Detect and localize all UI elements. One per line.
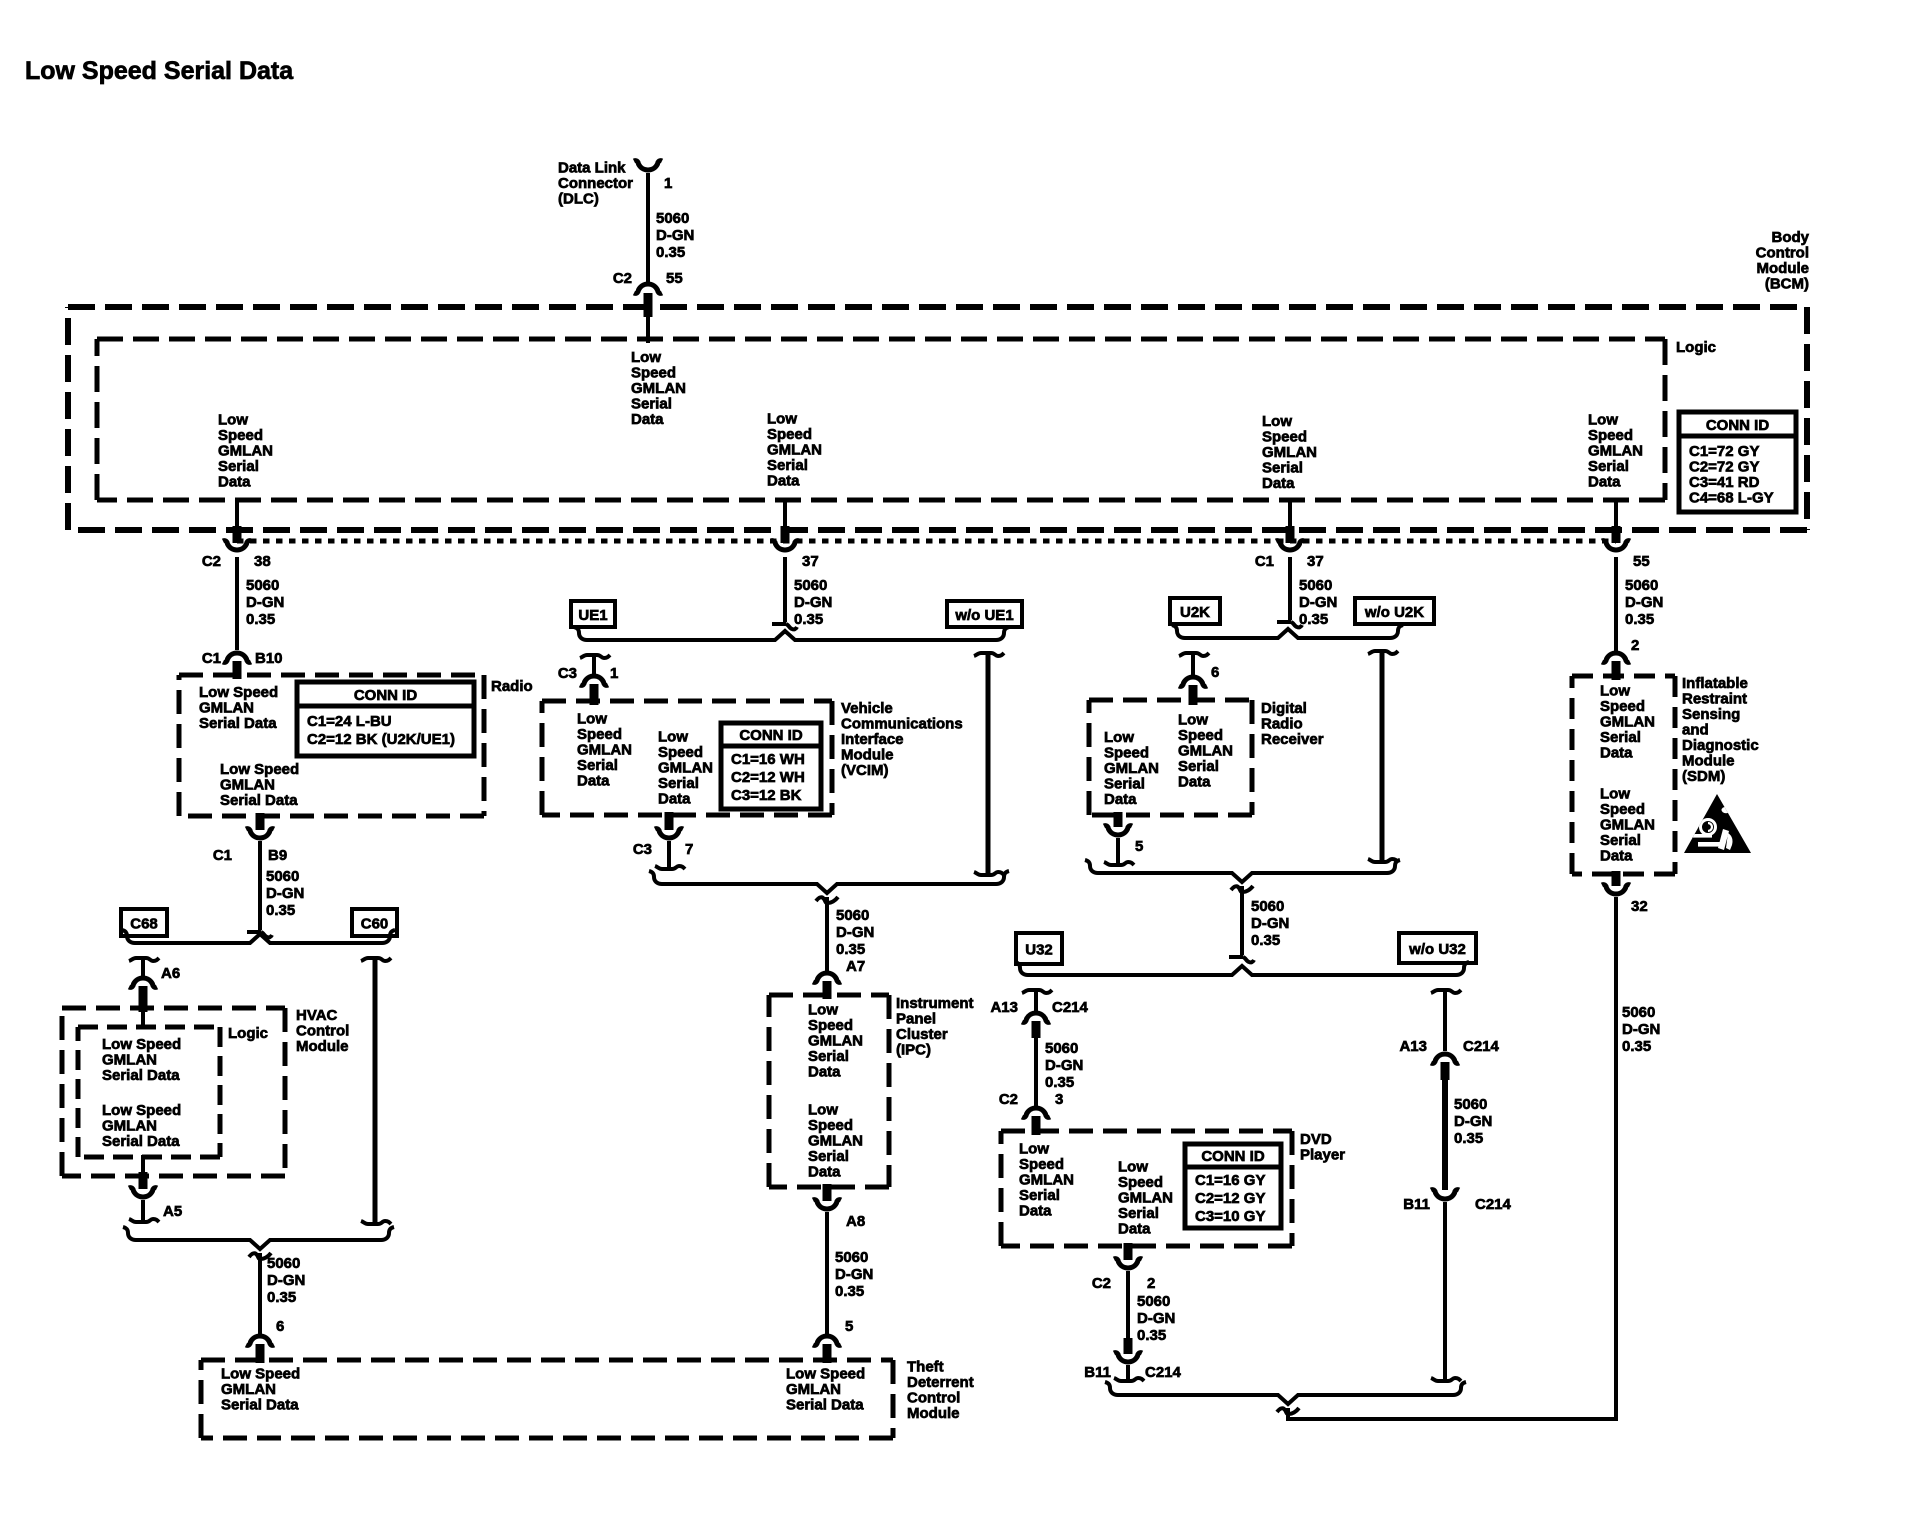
svg-text:Module: Module	[907, 1405, 960, 1422]
svg-text:D-GN: D-GN	[1625, 594, 1663, 611]
svg-text:GMLAN: GMLAN	[808, 1133, 863, 1150]
connector arc C1 B10 into Radio	[223, 653, 251, 662]
svg-text:5060: 5060	[267, 1255, 300, 1272]
connector arc A13 C214 (U32)	[1022, 1013, 1050, 1022]
module box Digital Radio Receiver dashed	[1089, 698, 1252, 703]
wire A5	[141, 1200, 145, 1222]
svg-text:GMLAN: GMLAN	[1588, 443, 1643, 460]
svg-text:Speed: Speed	[1262, 429, 1307, 446]
svg-text:Serial Data: Serial Data	[199, 715, 277, 732]
merge brace below DVD Player	[1105, 1382, 1466, 1404]
stub out of Digital Radio Receiver bottom	[1114, 812, 1123, 827]
connector arc BCM C2 pin 55	[634, 284, 662, 293]
connector arc C1 B9 out of Radio	[246, 829, 274, 838]
svg-text:CONN ID: CONN ID	[739, 727, 803, 744]
svg-text:Low: Low	[1019, 1141, 1049, 1158]
wire pin 6	[1191, 653, 1195, 675]
svg-text:CONN ID: CONN ID	[1201, 1148, 1265, 1165]
svg-text:GMLAN: GMLAN	[1118, 1190, 1173, 1207]
wire Radio B9 down to HVAC split	[258, 841, 262, 930]
svg-text:0.35: 0.35	[656, 244, 685, 261]
svg-text:D-GN: D-GN	[656, 227, 694, 244]
svg-text:5060: 5060	[656, 210, 689, 227]
connector arc at BCM drop x=237	[223, 541, 251, 550]
svg-text:C68: C68	[130, 916, 158, 933]
svg-text:Control: Control	[296, 1023, 349, 1040]
svg-text:B9: B9	[268, 847, 287, 864]
svg-text:C4=68 L-GY: C4=68 L-GY	[1689, 490, 1774, 507]
svg-text:Speed: Speed	[767, 426, 812, 443]
svg-text:Serial: Serial	[767, 457, 808, 474]
wire BCM drop at x=1290	[1288, 498, 1292, 530]
CONN ID table (Radio)	[297, 682, 474, 756]
connector arc at BCM drop x=1616	[1602, 541, 1630, 550]
svg-text:Module: Module	[1682, 753, 1735, 770]
svg-text:A13: A13	[1399, 1038, 1427, 1055]
svg-text:Low: Low	[1104, 729, 1134, 746]
CONN ID table (BCM)	[1679, 412, 1796, 512]
svg-text:Low Speed: Low Speed	[220, 761, 299, 778]
svg-text:Restraint: Restraint	[1682, 691, 1747, 708]
svg-text:Speed: Speed	[808, 1117, 853, 1134]
wire drop2 down to UE1 split	[783, 557, 787, 622]
module box DVD Player dashed	[1001, 1129, 1292, 1134]
svg-text:GMLAN: GMLAN	[102, 1118, 157, 1135]
svg-text:5060: 5060	[266, 868, 299, 885]
module box Vehicle Communications Interface Module dashed	[542, 699, 832, 704]
svg-text:Low: Low	[808, 1002, 838, 1019]
svg-text:Data: Data	[767, 473, 800, 490]
svg-text:Serial: Serial	[808, 1148, 849, 1165]
connector arc pin 6 into Digital Radio Receiver	[1179, 677, 1207, 686]
wire below B11 (w/o U32) to merge brace	[1443, 1202, 1447, 1381]
svg-text:Panel: Panel	[896, 1011, 936, 1028]
svg-text:0.35: 0.35	[836, 941, 865, 958]
wire from DVD merge right and up to SDM pin 32	[1288, 898, 1616, 1419]
wire C60 bypass branch	[361, 958, 391, 961]
svg-text:GMLAN: GMLAN	[767, 442, 822, 459]
svg-text:2: 2	[1147, 1275, 1155, 1292]
svg-text:0.35: 0.35	[1137, 1327, 1166, 1344]
svg-text:Module: Module	[296, 1038, 349, 1055]
svg-text:GMLAN: GMLAN	[1600, 714, 1655, 731]
svg-text:U32: U32	[1025, 942, 1053, 959]
svg-text:(BCM): (BCM)	[1765, 276, 1809, 293]
svg-text:Low Speed: Low Speed	[199, 684, 278, 701]
squiggle at top of wire to IPC	[816, 897, 838, 903]
svg-text:GMLAN: GMLAN	[218, 443, 273, 460]
svg-text:C214: C214	[1145, 1364, 1182, 1381]
connector pin 5 male half	[1104, 862, 1134, 865]
svg-text:C2: C2	[613, 270, 632, 287]
svg-text:Low: Low	[1600, 786, 1630, 803]
svg-text:UE1: UE1	[578, 607, 607, 624]
svg-text:Low Speed: Low Speed	[221, 1366, 300, 1383]
svg-text:0.35: 0.35	[246, 611, 275, 628]
CONN ID table (DVD)	[1185, 1144, 1281, 1228]
svg-text:Vehicle: Vehicle	[841, 700, 893, 717]
svg-text:Sensing: Sensing	[1682, 706, 1740, 723]
svg-text:Speed: Speed	[631, 365, 676, 382]
svg-text:CONN ID: CONN ID	[1706, 417, 1770, 434]
HVAC internal Logic dashed box	[78, 1025, 220, 1030]
svg-text:GMLAN: GMLAN	[577, 742, 632, 759]
squiggle at top of wire to Theft module	[249, 1253, 271, 1259]
svg-text:and: and	[1682, 722, 1709, 739]
svg-text:Diagnostic: Diagnostic	[1682, 737, 1759, 754]
stub out of IPC bottom	[823, 1184, 832, 1201]
svg-text:0.35: 0.35	[1625, 611, 1654, 628]
squiggle at top of wire to U32 split	[1231, 886, 1253, 892]
split brace U2K / w-o U2K	[1172, 625, 1403, 638]
svg-text:5060: 5060	[836, 907, 869, 924]
module box Body Control Module (BCM) outer dashed	[68, 304, 1807, 310]
svg-text:38: 38	[254, 553, 271, 570]
svg-text:CONN ID: CONN ID	[354, 687, 418, 704]
svg-text:Serial: Serial	[1600, 832, 1641, 849]
split brace C68 / C60	[122, 930, 395, 943]
svg-text:C1: C1	[213, 847, 232, 864]
svg-text:Radio: Radio	[1261, 716, 1303, 733]
connector B11 C214 stub male	[1124, 1338, 1133, 1354]
connector arc A6 into HVAC	[129, 978, 157, 987]
wire from IPC A8 to Theft pin 5	[825, 1212, 829, 1334]
wire inside HVAC from A6 to Logic box	[141, 1008, 145, 1029]
svg-text:1: 1	[664, 175, 672, 192]
svg-text:GMLAN: GMLAN	[808, 1033, 863, 1050]
stub out of SDM bottom	[1612, 871, 1621, 886]
svg-text:w/o U2K: w/o U2K	[1364, 604, 1424, 621]
stub into BCM from pin 55	[644, 293, 653, 317]
wire drop3 down to U2K split	[1288, 557, 1292, 620]
wire BCM drop at x=785	[783, 498, 787, 530]
svg-text:0.35: 0.35	[1622, 1038, 1651, 1055]
svg-text:37: 37	[802, 553, 819, 570]
svg-text:0.35: 0.35	[794, 611, 823, 628]
svg-text:0.35: 0.35	[1045, 1074, 1074, 1091]
module box SDM dashed	[1572, 674, 1675, 679]
connector arc pin 6 into Theft module	[246, 1336, 274, 1345]
svg-text:Speed: Speed	[1104, 745, 1149, 762]
module box HVAC Control Module dashed	[62, 1006, 285, 1011]
svg-text:6: 6	[1211, 664, 1219, 681]
svg-text:Data: Data	[1600, 848, 1633, 865]
svg-text:Communications: Communications	[841, 716, 963, 733]
svg-text:D-GN: D-GN	[266, 885, 304, 902]
svg-text:A7: A7	[846, 958, 865, 975]
svg-text:Speed: Speed	[808, 1017, 853, 1034]
svg-text:D-GN: D-GN	[1622, 1021, 1660, 1038]
wire inside BCM to Logic box	[646, 315, 650, 343]
svg-text:GMLAN: GMLAN	[786, 1381, 841, 1398]
svg-text:C214: C214	[1463, 1038, 1500, 1055]
svg-text:Serial: Serial	[631, 396, 672, 413]
svg-text:5: 5	[1135, 838, 1143, 855]
option box w/o U2K	[1355, 598, 1434, 624]
svg-text:Serial: Serial	[577, 757, 618, 774]
svg-text:Data: Data	[1104, 791, 1137, 808]
connector arc C2 pin 3 into DVD Player	[1022, 1108, 1050, 1117]
svg-text:Speed: Speed	[658, 744, 703, 761]
wire from HVAC merge to Theft Deterrent pin 6	[258, 1253, 262, 1334]
svg-text:C2: C2	[202, 553, 221, 570]
svg-text:Control: Control	[907, 1390, 960, 1407]
connector arc B11 C214 (left)	[1114, 1353, 1142, 1362]
svg-text:5060: 5060	[794, 577, 827, 594]
svg-text:Speed: Speed	[1019, 1156, 1064, 1173]
svg-text:C2: C2	[999, 1091, 1018, 1108]
svg-text:B11: B11	[1403, 1196, 1430, 1213]
thick wire A13 to B11 (w/o U32)	[1442, 1078, 1448, 1190]
svg-text:(DLC): (DLC)	[558, 191, 599, 208]
wire A13	[1034, 990, 1038, 1011]
connector arc pin 5 out of Digital Radio Receiver	[1104, 826, 1132, 835]
svg-text:GMLAN: GMLAN	[102, 1052, 157, 1069]
svg-text:Speed: Speed	[1588, 427, 1633, 444]
connector arc A8 out of IPC	[813, 1200, 841, 1209]
svg-text:GMLAN: GMLAN	[631, 380, 686, 397]
svg-text:GMLAN: GMLAN	[1600, 817, 1655, 834]
svg-text:B11: B11	[1084, 1364, 1111, 1381]
svg-text:C214: C214	[1475, 1196, 1512, 1213]
svg-text:Inflatable: Inflatable	[1682, 675, 1748, 692]
svg-text:Low: Low	[1600, 683, 1630, 700]
svg-text:D-GN: D-GN	[1454, 1113, 1492, 1130]
svg-text:Low: Low	[631, 349, 661, 366]
svg-text:Low Speed Serial Data: Low Speed Serial Data	[25, 57, 294, 85]
svg-text:Theft: Theft	[907, 1359, 944, 1376]
svg-text:Player: Player	[1300, 1147, 1345, 1164]
svg-text:Serial: Serial	[218, 458, 259, 475]
svg-text:Speed: Speed	[1118, 1174, 1163, 1191]
svg-text:Serial: Serial	[1118, 1205, 1159, 1222]
wire C3 pin 1	[592, 655, 596, 674]
svg-text:Serial: Serial	[1019, 1187, 1060, 1204]
svg-text:C2=12 GY: C2=12 GY	[1195, 1190, 1265, 1207]
svg-text:3: 3	[1055, 1091, 1063, 1108]
svg-text:37: 37	[1307, 553, 1324, 570]
connector arc pin 5 into Theft module	[813, 1336, 841, 1345]
svg-text:Data: Data	[1019, 1203, 1052, 1220]
svg-text:A5: A5	[163, 1203, 182, 1220]
svg-text:0.35: 0.35	[1454, 1130, 1483, 1147]
svg-text:w/o UE1: w/o UE1	[954, 607, 1013, 624]
svg-text:5060: 5060	[1454, 1096, 1487, 1113]
connector DLC pin 1 arc	[634, 161, 662, 170]
svg-text:Data: Data	[808, 1164, 841, 1181]
svg-text:D-GN: D-GN	[1045, 1057, 1083, 1074]
svg-text:5060: 5060	[1137, 1293, 1170, 1310]
connector arc C2 pin 2 out of DVD Player	[1114, 1259, 1142, 1268]
option box w/o UE1	[947, 601, 1022, 627]
svg-text:B10: B10	[255, 650, 283, 667]
squiggle below DVD merge brace	[1277, 1408, 1299, 1414]
svg-text:Logic: Logic	[228, 1025, 268, 1042]
svg-text:Speed: Speed	[1600, 801, 1645, 818]
svg-text:A6: A6	[161, 965, 180, 982]
connector arc A5 out of HVAC	[129, 1188, 157, 1197]
svg-text:Body: Body	[1772, 229, 1810, 246]
svg-text:Cluster: Cluster	[896, 1026, 948, 1043]
svg-text:2: 2	[1631, 637, 1639, 654]
svg-text:Data: Data	[577, 773, 610, 790]
wire below B11 C214	[1126, 1365, 1130, 1381]
svg-text:(IPC): (IPC)	[896, 1042, 931, 1059]
svg-text:C2=12 BK (U2K/UE1): C2=12 BK (U2K/UE1)	[307, 731, 455, 748]
svg-text:C3: C3	[558, 665, 577, 682]
svg-text:5060: 5060	[835, 1249, 868, 1266]
connector pin 6 male half (Digital Radio)	[1179, 653, 1209, 656]
split brace U32 / w-o U32	[1015, 962, 1469, 975]
svg-text:55: 55	[1633, 553, 1650, 570]
svg-text:Low: Low	[218, 412, 248, 429]
wire from U2K merge to U32 split	[1240, 886, 1244, 955]
svg-text:Digital: Digital	[1261, 700, 1307, 717]
wire from A13 C214 to DVD C2 pin 3	[1034, 1038, 1038, 1106]
svg-text:Module: Module	[841, 747, 894, 764]
svg-text:5060: 5060	[1251, 898, 1284, 915]
svg-text:U2K: U2K	[1180, 604, 1210, 621]
svg-text:Serial: Serial	[1262, 460, 1303, 477]
svg-text:Low: Low	[1588, 412, 1618, 429]
svg-text:Data: Data	[218, 474, 251, 491]
wire BCM drop at x=1616	[1614, 498, 1618, 530]
svg-text:Interface: Interface	[841, 731, 904, 748]
svg-text:GMLAN: GMLAN	[1104, 760, 1159, 777]
wire from SDM pin 32 down (join from DVD merge)	[1614, 897, 1618, 900]
svg-text:A13: A13	[990, 999, 1018, 1016]
svg-text:Data Link: Data Link	[558, 160, 626, 177]
svg-text:Low Speed: Low Speed	[786, 1366, 865, 1383]
svg-text:C1: C1	[1255, 553, 1274, 570]
svg-text:Serial Data: Serial Data	[220, 792, 298, 809]
wire w/o U2K bypass	[1368, 651, 1398, 654]
svg-text:5: 5	[845, 1318, 853, 1335]
svg-text:Low: Low	[808, 1102, 838, 1119]
svg-text:32: 32	[1631, 898, 1648, 915]
svg-text:Serial Data: Serial Data	[221, 1397, 299, 1414]
connector A5 male half	[129, 1219, 159, 1222]
svg-text:C1: C1	[202, 650, 221, 667]
svg-text:C3=41 RD: C3=41 RD	[1689, 474, 1760, 491]
option box U2K	[1170, 598, 1220, 624]
svg-text:C3=12 BK: C3=12 BK	[731, 787, 802, 804]
connector arc B11 C214 (w/o U32)	[1431, 1190, 1459, 1199]
svg-text:5060: 5060	[246, 577, 279, 594]
svg-text:Low Speed: Low Speed	[102, 1036, 181, 1053]
wire A6	[141, 958, 145, 976]
connector C3 pin 1 male half	[580, 655, 610, 658]
stub out of HVAC bottom	[139, 1172, 148, 1189]
svg-text:w/o U32: w/o U32	[1408, 941, 1466, 958]
wire C2 pin 2 down to B11 C214	[1126, 1271, 1130, 1340]
svg-text:5060: 5060	[1625, 577, 1658, 594]
svg-text:C3: C3	[633, 841, 652, 858]
svg-text:0.35: 0.35	[267, 1289, 296, 1306]
wire 5060 D-GN from DLC pin 1 to BCM C2 pin 55	[646, 173, 650, 282]
svg-text:0.35: 0.35	[1299, 611, 1328, 628]
connector arc C3 pin 7 out of VCIM	[655, 829, 683, 838]
stub out of VCIM bottom	[665, 812, 674, 830]
svg-text:Serial: Serial	[1588, 458, 1629, 475]
connector arc C3 pin 1 into VCIM	[580, 676, 608, 685]
svg-text:Data: Data	[631, 411, 664, 428]
svg-text:Low: Low	[1178, 712, 1208, 729]
svg-text:Serial: Serial	[658, 775, 699, 792]
wire w/o U32 branch down	[1431, 990, 1461, 993]
svg-text:Serial: Serial	[1600, 729, 1641, 746]
wire C3 pin 7	[667, 841, 671, 869]
svg-text:Connector: Connector	[558, 175, 633, 192]
svg-text:Control: Control	[1756, 245, 1809, 262]
svg-text:Receiver: Receiver	[1261, 731, 1324, 748]
svg-text:C1=72 GY: C1=72 GY	[1689, 443, 1759, 460]
svg-text:D-GN: D-GN	[794, 594, 832, 611]
svg-text:5060: 5060	[1622, 1004, 1655, 1021]
svg-text:Low Speed: Low Speed	[102, 1102, 181, 1119]
wire w/o UE1 bypass	[974, 653, 1004, 656]
svg-text:55: 55	[666, 270, 683, 287]
wire drop1 down to Radio	[235, 557, 239, 650]
svg-text:DVD: DVD	[1300, 1131, 1332, 1148]
stub out of DVD Player bottom	[1124, 1243, 1133, 1260]
svg-text:D-GN: D-GN	[246, 594, 284, 611]
svg-text:Instrument: Instrument	[896, 995, 974, 1012]
svg-text:0.35: 0.35	[1251, 932, 1280, 949]
svg-text:D-GN: D-GN	[267, 1272, 305, 1289]
svg-text:Serial Data: Serial Data	[102, 1067, 180, 1084]
svg-text:Serial: Serial	[1178, 758, 1219, 775]
connector C3 pin 7 male half	[655, 866, 685, 869]
svg-text:D-GN: D-GN	[1137, 1310, 1175, 1327]
svg-text:1: 1	[610, 665, 618, 682]
svg-text:Module: Module	[1757, 260, 1810, 277]
svg-text:Low: Low	[577, 711, 607, 728]
svg-text:6: 6	[276, 1318, 284, 1335]
svg-text:Speed: Speed	[1600, 698, 1645, 715]
svg-text:C1=16 WH: C1=16 WH	[731, 751, 805, 768]
svg-text:Data: Data	[808, 1064, 841, 1081]
connector arc at BCM drop x=785	[771, 541, 799, 550]
module box Theft Deterrent Control Module dashed	[201, 1358, 893, 1363]
svg-text:D-GN: D-GN	[1251, 915, 1289, 932]
option box w/o U32	[1399, 933, 1476, 963]
svg-text:(VCIM): (VCIM)	[841, 762, 889, 779]
svg-text:Low: Low	[1262, 413, 1292, 430]
svg-text:Data: Data	[1262, 475, 1295, 492]
connector arc at BCM drop x=1290	[1276, 541, 1304, 550]
merge brace below Digital Radio Receiver	[1085, 860, 1400, 882]
connector A13 C214 male half (U32)	[1022, 990, 1052, 993]
stub out of Radio bottom	[256, 813, 265, 830]
svg-text:Data: Data	[1588, 474, 1621, 491]
svg-text:(SDM): (SDM)	[1682, 768, 1725, 785]
wire drop4 down to SDM	[1614, 557, 1618, 651]
svg-text:0.35: 0.35	[835, 1283, 864, 1300]
svg-text:C2: C2	[1092, 1275, 1111, 1292]
svg-text:C1=24 L-BU: C1=24 L-BU	[307, 713, 392, 730]
svg-text:Data: Data	[1600, 745, 1633, 762]
BCM internal Logic dashed box	[97, 337, 1665, 342]
wire end foot above HVAC split brace	[247, 930, 261, 934]
svg-text:Deterrent: Deterrent	[907, 1374, 974, 1391]
svg-text:Data: Data	[1118, 1221, 1151, 1238]
svg-text:D-GN: D-GN	[835, 1266, 873, 1283]
svg-text:Speed: Speed	[1178, 727, 1223, 744]
svg-text:Logic: Logic	[1676, 339, 1716, 356]
merge brace below VCIM	[649, 871, 1009, 893]
svg-text:HVAC: HVAC	[296, 1007, 338, 1024]
